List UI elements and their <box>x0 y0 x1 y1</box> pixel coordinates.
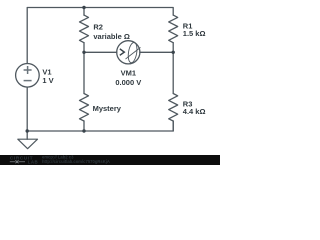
wire middle column between VM node and Mystery <box>83 52 85 93</box>
svg-text:4.4 kΩ: 4.4 kΩ <box>183 107 206 116</box>
resistor R3 <box>169 94 178 122</box>
node dot middle-right (R1/VM1/R3) <box>172 51 175 54</box>
voltage source V1 <box>16 64 40 88</box>
VM1 arrow chevron <box>120 49 125 56</box>
wire VM1 left <box>84 51 117 53</box>
node dot bottom-left (ground junction) <box>26 129 29 132</box>
wire bottom rail <box>27 121 173 131</box>
VM1 meter dial ellipse <box>127 42 138 63</box>
wire R1/R3 mid column <box>172 52 174 93</box>
svg-text:Mystery: Mystery <box>93 104 122 113</box>
VM1 meter needle <box>126 48 140 59</box>
svg-text:0.000 V: 0.000 V <box>115 78 141 87</box>
V1 plus sign <box>24 66 32 81</box>
wire Mystery bottom lead <box>83 121 85 131</box>
node dot middle-left (R2/VM1) <box>82 51 85 54</box>
wire V1 bottom to ground junction <box>26 87 28 139</box>
svg-text:R2: R2 <box>93 23 103 32</box>
wire middle column R2 top lead <box>83 8 85 16</box>
wire VM1 right <box>140 51 173 53</box>
logo trace mark <box>10 160 25 163</box>
wire R3 bottom lead <box>172 121 174 131</box>
svg-text:variable Ω: variable Ω <box>93 32 129 41</box>
node dot bottom-middle (Mystery/bottom rail) <box>82 129 85 132</box>
wire R1 bottom lead <box>172 43 174 53</box>
resistor R1 <box>169 15 178 43</box>
footer bar <box>0 155 220 165</box>
svg-text:http://circuitlab.com/c7570gRs: http://circuitlab.com/c7570gRsKjA <box>42 159 110 164</box>
wire middle column R2 bottom lead <box>83 43 85 53</box>
voltmeter VM1 <box>117 41 140 64</box>
ground <box>18 139 38 149</box>
node dot top (R2/top rail) <box>82 6 85 9</box>
svg-text:LAB: LAB <box>28 160 38 165</box>
resistor R2 <box>80 15 89 43</box>
svg-text:1 V: 1 V <box>42 76 53 85</box>
resistor Mystery <box>80 94 89 122</box>
V1 minus sign <box>24 80 32 82</box>
wire top rail <box>27 8 173 64</box>
svg-text:VM1: VM1 <box>121 69 136 78</box>
svg-text:1.5 kΩ: 1.5 kΩ <box>183 29 206 38</box>
